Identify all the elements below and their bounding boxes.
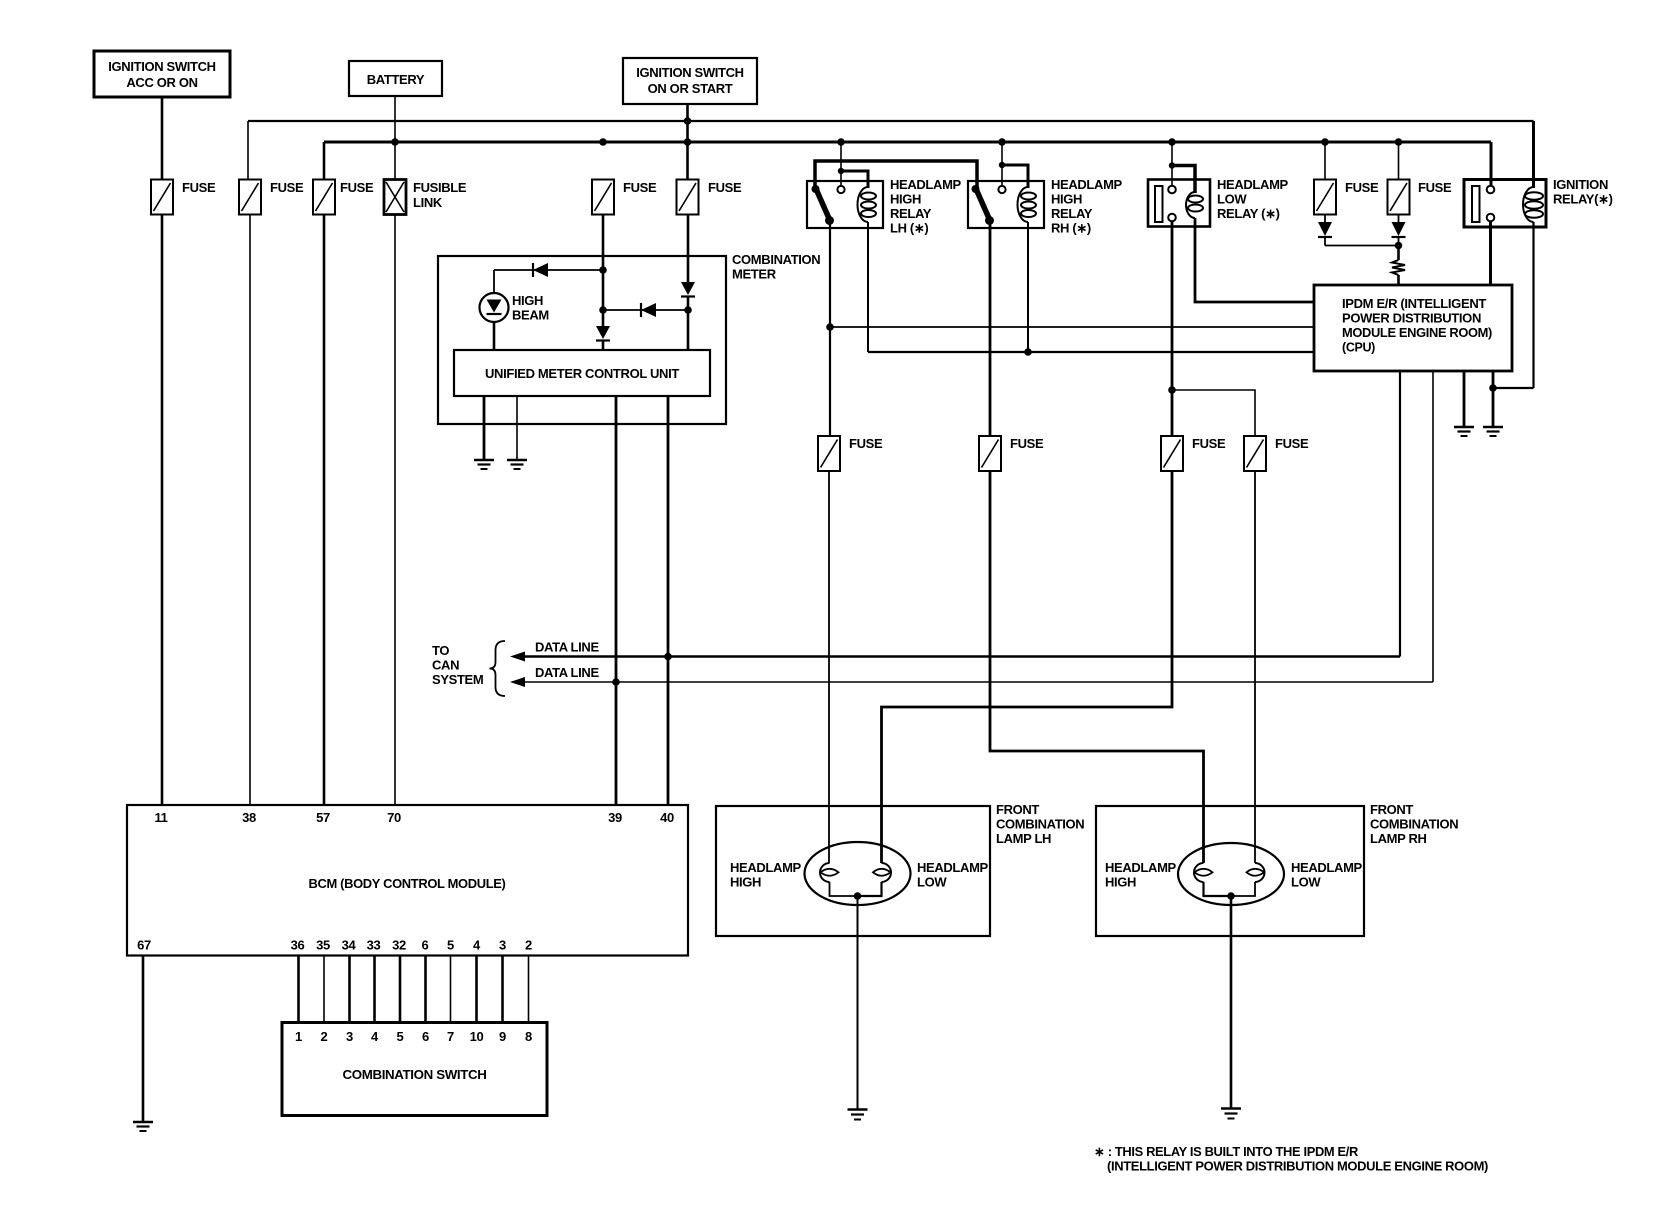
svg-text:BCM (BODY CONTROL MODULE): BCM (BODY CONTROL MODULE) — [309, 876, 506, 891]
box: IPDM E/R — [1314, 285, 1512, 371]
node: bus2 relay LH junction — [837, 138, 845, 146]
svg-text:4: 4 — [371, 1029, 379, 1044]
brace: CAN system — [490, 641, 506, 696]
wire: ignition switch on/start drop — [686, 104, 689, 180]
svg-text:POWER DISTRIBUTION: POWER DISTRIBUTION — [1342, 311, 1481, 326]
svg-text:SYSTEM: SYSTEM — [432, 672, 483, 687]
svg-text:LOW: LOW — [1217, 192, 1247, 207]
svg-text:RH (∗): RH (∗) — [1051, 221, 1091, 236]
svg-text:6: 6 — [422, 938, 429, 953]
filament: RH high — [1105, 860, 1231, 896]
svg-text:HEADLAMP: HEADLAMP — [1105, 860, 1177, 875]
wire: BCM 36 to switch 1 — [297, 956, 300, 1023]
box: combination switch — [282, 1023, 547, 1116]
contact: ignition relay top contact — [1487, 186, 1495, 194]
svg-text:4: 4 — [473, 938, 481, 953]
fuse F2 — [239, 180, 304, 215]
wire: UMCU pin 40 down to BCM — [667, 396, 670, 805]
svg-text:3: 3 — [346, 1029, 353, 1044]
node: RH bulb common — [1227, 892, 1235, 900]
svg-text:LINK: LINK — [413, 195, 443, 210]
diode D5 under fuse F7 — [1318, 215, 1332, 246]
ground: IPDM 1 — [1454, 427, 1474, 436]
svg-text:33: 33 — [367, 938, 381, 953]
svg-text:HEADLAMP: HEADLAMP — [730, 860, 802, 875]
wire: LH coil feed — [841, 171, 868, 188]
svg-text:LAMP LH: LAMP LH — [996, 831, 1051, 846]
node: LH output IPDM branch — [826, 323, 834, 331]
svg-text:38: 38 — [242, 810, 256, 825]
svg-text:CAN: CAN — [432, 658, 459, 673]
svg-text:TO: TO — [432, 643, 449, 658]
svg-text:7: 7 — [447, 1029, 454, 1044]
svg-text:32: 32 — [392, 938, 406, 953]
coil K4 — [1523, 187, 1534, 222]
fuse F5 — [592, 180, 657, 215]
wire: BCM 5 to switch 7 — [450, 956, 452, 1023]
svg-text:FUSE: FUSE — [708, 180, 742, 195]
diode D6 under fuse F8 — [1392, 215, 1406, 246]
node: bus2 fuse F5 junction — [599, 138, 607, 146]
svg-text:HEADLAMP: HEADLAMP — [1051, 177, 1123, 192]
fuse F10 (RH high) — [979, 436, 1044, 471]
wire: bus2 to low relay — [1171, 142, 1173, 185]
coil K2 — [1018, 187, 1029, 222]
node: coil return join — [1489, 384, 1497, 392]
wire: fuse F11 to LH lamp low — [882, 471, 1173, 863]
wire: BCM 32 to switch 5 — [399, 956, 402, 1023]
contact: low relay top contact — [1168, 186, 1176, 194]
wire: BCM 35 to switch 2 — [323, 956, 325, 1023]
svg-text:ON OR START: ON OR START — [648, 81, 733, 96]
switch bar K3 — [1155, 186, 1163, 222]
footnote — [1094, 1144, 1488, 1174]
svg-text:HIGH: HIGH — [1051, 192, 1082, 207]
wire: low relay output down — [1171, 222, 1174, 437]
switch arm K2 — [977, 190, 990, 220]
wire: BCM 3 to switch 9 — [501, 956, 504, 1023]
svg-text:67: 67 — [137, 938, 151, 953]
box: BATTERY — [349, 61, 442, 96]
svg-text:34: 34 — [342, 938, 357, 953]
wire: bus2 horizontal (battery feed) — [324, 141, 1491, 144]
svg-text:METER: METER — [732, 267, 777, 282]
relay K4: ignition relay — [1464, 121, 1613, 227]
wire: BCM 34 to switch 3 — [348, 956, 351, 1023]
svg-text:3: 3 — [499, 938, 506, 953]
wire: fuse F12 to RH lamp low — [1254, 471, 1256, 863]
switch arm K1 — [817, 190, 830, 220]
svg-text:IGNITION SWITCH: IGNITION SWITCH — [108, 59, 215, 74]
wire: fuse F6 into meter — [687, 215, 690, 283]
svg-text:IGNITION: IGNITION — [1553, 177, 1608, 192]
svg-text:6: 6 — [422, 1029, 429, 1044]
wire: fusible link to BCM pin 70 — [394, 215, 396, 806]
wire: BCM 2 to switch 8 — [528, 956, 530, 1023]
svg-text:11: 11 — [154, 810, 167, 825]
fuse F12 (RH low) — [1244, 436, 1309, 471]
svg-text:DATA LINE: DATA LINE — [535, 665, 599, 680]
svg-text:RELAY: RELAY — [1051, 206, 1093, 221]
svg-text:FUSIBLE: FUSIBLE — [413, 180, 467, 195]
node: RH coil join — [1024, 348, 1032, 356]
wire: BCM 6 to switch 6 — [424, 956, 427, 1023]
wire: node to resistor — [1397, 246, 1400, 261]
box: IGNITION SWITCH ON OR START — [623, 58, 757, 104]
node: diode outputs join — [1395, 242, 1403, 250]
wire: LH output branch to IPDM — [830, 326, 1314, 328]
wire: bus1 horizontal (ignition on/start feed) — [248, 120, 1534, 122]
wire: fuse F9 to LH lamp high — [828, 471, 830, 863]
wire: bus2 to ignition relay contact — [1490, 142, 1493, 185]
contact: low relay bottom contact — [1168, 214, 1176, 222]
svg-text:40: 40 — [660, 810, 674, 825]
relay K2: headlamp high relay RH — [968, 142, 1123, 236]
box: BCM (body control module) — [127, 805, 688, 956]
svg-text:COMBINATION SWITCH: COMBINATION SWITCH — [343, 1067, 487, 1082]
node: bus1 ignition junction — [684, 117, 692, 125]
ground: LH lamp — [848, 1110, 868, 1120]
relay K3: headlamp low relay — [1148, 142, 1289, 227]
svg-text:10: 10 — [470, 1029, 484, 1044]
svg-text:HEADLAMP: HEADLAMP — [1291, 860, 1363, 875]
node: bus2 ignition wire junction — [684, 138, 692, 146]
wire: diode D1 to high beam lamp — [493, 270, 495, 293]
svg-text:1: 1 — [295, 1029, 302, 1044]
wire: bus2 left drop to fuse F3 — [323, 142, 326, 180]
wire: IPDM ground 2 — [1492, 371, 1495, 427]
wire: branch to fuse F12 — [1172, 390, 1255, 436]
bulb: LH headlamp — [805, 842, 911, 905]
svg-text:MODULE ENGINE ROOM): MODULE ENGINE ROOM) — [1342, 325, 1492, 340]
diode D3 (points left) — [641, 303, 656, 317]
svg-text:COMBINATION: COMBINATION — [996, 817, 1084, 832]
wire: RH bulb to ground — [1230, 896, 1233, 1109]
svg-text:RELAY: RELAY — [890, 206, 932, 221]
wire: ignition relay coil down — [1532, 222, 1534, 388]
bulb: RH headlamp — [1178, 843, 1284, 905]
svg-text:(CPU): (CPU) — [1342, 340, 1375, 355]
svg-text:FUSE: FUSE — [849, 436, 883, 451]
wire: coil return line to IPDM — [868, 351, 1314, 353]
wire: fuse F2 to BCM pin 38 — [249, 215, 251, 806]
node: bus2 fuse F7 junction — [1321, 138, 1329, 146]
wire: D4 to UMCU — [687, 297, 690, 351]
node: bus2 low relay junction — [1168, 138, 1176, 146]
svg-text:36: 36 — [291, 938, 305, 953]
svg-text:UNIFIED METER CONTROL UNIT: UNIFIED METER CONTROL UNIT — [485, 366, 679, 381]
svg-text:9: 9 — [499, 1029, 506, 1044]
filament: LH low — [858, 860, 989, 896]
svg-text:IGNITION SWITCH: IGNITION SWITCH — [636, 65, 743, 80]
node: LH coil branch — [838, 168, 844, 174]
wire: low relay coil feed — [1172, 166, 1195, 194]
arrow+wire: data line 1 — [510, 652, 1400, 662]
resistor R1 — [1392, 260, 1405, 275]
svg-text:HEADLAMP: HEADLAMP — [1217, 177, 1289, 192]
fuse F7 — [1314, 142, 1379, 215]
svg-text:70: 70 — [387, 810, 401, 825]
coil K3 — [1186, 192, 1195, 218]
wire: high beam lamp to UMCU — [493, 322, 496, 350]
wire: battery to fusible link — [394, 96, 396, 180]
wire: low relay coil to IPDM — [1195, 218, 1314, 302]
label: TO CAN SYSTEM — [432, 643, 483, 687]
svg-text:BATTERY: BATTERY — [367, 72, 425, 87]
svg-text:FUSE: FUSE — [623, 180, 657, 195]
wire: LH bulb to ground — [857, 896, 859, 1110]
diode D1 (points left) — [533, 263, 548, 277]
wire: bus2 to LH relay — [840, 142, 842, 185]
arrow+wire: data line 2 — [510, 677, 1433, 687]
node: low output branch — [1168, 386, 1176, 394]
wire: UMCU ground 2 — [516, 396, 518, 460]
wire: IPDM ground 1 — [1463, 371, 1466, 427]
svg-text:HIGH: HIGH — [1105, 875, 1136, 890]
svg-text:35: 35 — [316, 938, 330, 953]
wire: fuse F10 to RH lamp high — [990, 471, 1204, 863]
svg-text:2: 2 — [321, 1029, 328, 1044]
fuse F1 — [151, 180, 216, 215]
svg-text:HIGH: HIGH — [730, 875, 761, 890]
ground: UMCU 2 — [507, 460, 527, 469]
wire: BCM 4 to switch 10 — [475, 956, 478, 1023]
diode D4 (points down, right wire) — [681, 282, 695, 297]
node: LH bulb common — [854, 892, 862, 900]
wire: bus1 to ignition relay coil — [1532, 121, 1535, 188]
node: bus2 relay RH junction — [998, 138, 1006, 146]
svg-text:HEADLAMP: HEADLAMP — [917, 860, 989, 875]
svg-text:FUSE: FUSE — [270, 180, 304, 195]
svg-text:RELAY (∗): RELAY (∗) — [1217, 206, 1280, 221]
node: bus2 fuse F8 junction — [1395, 138, 1403, 146]
LED: high beam indicator — [480, 293, 549, 323]
fuse F3 — [313, 180, 374, 215]
filament: LH high — [730, 860, 858, 896]
wire: switch feed jumper LH-RH — [815, 161, 977, 190]
svg-text:2: 2 — [525, 938, 532, 953]
wire: RH coil feed — [1002, 165, 1028, 188]
svg-text:HIGH: HIGH — [890, 192, 921, 207]
svg-text:FUSE: FUSE — [1418, 180, 1452, 195]
fuse F9 (LH high) — [818, 436, 883, 471]
svg-text:FUSE: FUSE — [1345, 180, 1379, 195]
wire: RH relay switch output down to fuse — [989, 221, 992, 437]
switch bar K4 — [1472, 186, 1480, 222]
fuse F6 — [677, 180, 742, 215]
node: low relay coil branch — [1169, 162, 1175, 168]
node: data line 2 to BCM pin 39 — [612, 678, 620, 686]
wire: LH relay switch output down to fuse — [829, 221, 831, 437]
ground: RH lamp — [1221, 1109, 1241, 1119]
wire: mid branch to diode D3 — [603, 309, 688, 311]
contact: ignition relay bottom contact — [1487, 214, 1495, 222]
node: data line 1 to BCM pin 40 — [664, 653, 672, 661]
svg-text:57: 57 — [316, 810, 330, 825]
ground: BCM — [133, 1122, 153, 1131]
svg-text:FRONT: FRONT — [996, 802, 1039, 817]
svg-text:FRONT: FRONT — [1370, 802, 1413, 817]
svg-text:5: 5 — [447, 938, 454, 953]
wire: IPDM data pin 2 down — [1432, 371, 1434, 682]
wire: fuse F1 to BCM pin 11 — [161, 215, 164, 806]
node: meter mid branch — [599, 306, 607, 314]
svg-text:BEAM: BEAM — [512, 308, 549, 323]
wire: BCM pin 67 to ground — [142, 956, 145, 1123]
contact: LH relay fixed contact — [837, 186, 844, 193]
svg-text:HEADLAMP: HEADLAMP — [890, 177, 962, 192]
svg-text:LOW: LOW — [917, 875, 947, 890]
filament: RH low — [1231, 860, 1363, 896]
wire: coil return to IPDM ground node — [1493, 387, 1534, 389]
wire: BCM 33 to switch 4 — [373, 956, 376, 1023]
node: bus2 battery junction — [391, 138, 399, 146]
coil K1 — [858, 187, 868, 222]
wire: fuse F3 to BCM pin 57 — [323, 215, 326, 806]
svg-text:∗ : THIS RELAY IS BUILT INTO T: ∗ : THIS RELAY IS BUILT INTO THE IPDM E/… — [1094, 1144, 1359, 1159]
svg-text:RELAY(∗): RELAY(∗) — [1553, 192, 1613, 207]
wire: ignition relay contact to IPDM top — [1489, 222, 1492, 286]
box: front combination lamp RH — [1096, 802, 1458, 936]
wire: ignition switch ACC to fuse F1 — [161, 97, 164, 180]
svg-text:DATA LINE: DATA LINE — [535, 640, 599, 655]
svg-text:FUSE: FUSE — [340, 180, 374, 195]
wire: bus2 to RH relay — [1001, 142, 1003, 185]
svg-text:FUSE: FUSE — [182, 180, 216, 195]
wire: UMCU pin 39 down to BCM — [615, 396, 618, 805]
svg-text:LOW: LOW — [1291, 875, 1321, 890]
svg-text:FUSE: FUSE — [1275, 436, 1309, 451]
wire: IPDM data pin 1 down — [1399, 371, 1401, 657]
svg-text:LAMP RH: LAMP RH — [1370, 831, 1427, 846]
svg-text:5: 5 — [397, 1029, 404, 1044]
node: meter right branch — [684, 306, 692, 314]
wire: fuse F5 into meter — [602, 215, 605, 327]
fuse F8 — [1388, 142, 1452, 215]
ground: UMCU 1 — [474, 460, 494, 469]
box: combination meter — [438, 252, 820, 424]
svg-text:(INTELLIGENT POWER DISTRIBUTIO: (INTELLIGENT POWER DISTRIBUTION MODULE E… — [1107, 1159, 1488, 1174]
relay K1: headlamp high relay LH — [807, 142, 977, 236]
fuse F11 (LH low) — [1161, 436, 1226, 471]
wire: LH coil down — [867, 222, 869, 352]
wire: UMCU ground 1 — [483, 396, 486, 460]
svg-text:FUSE: FUSE — [1010, 436, 1044, 451]
ground: IPDM 2 — [1483, 427, 1503, 436]
node: meter top branch — [599, 266, 607, 274]
svg-text:HIGH: HIGH — [512, 293, 543, 308]
node: RH coil branch — [999, 162, 1005, 168]
box: unified meter control unit — [454, 350, 710, 396]
wire: diode D5 output to node — [1325, 245, 1399, 247]
box: IGNITION SWITCH ACC OR ON — [94, 51, 230, 97]
svg-text:ACC OR ON: ACC OR ON — [126, 75, 197, 90]
svg-text:IPDM E/R (INTELLIGENT: IPDM E/R (INTELLIGENT — [1342, 296, 1486, 311]
fusible link FL — [384, 180, 467, 215]
diode D2 (points down, under node) — [596, 326, 610, 350]
svg-text:FUSE: FUSE — [1192, 436, 1226, 451]
box: front combination lamp LH — [716, 802, 1084, 936]
svg-text:COMBINATION: COMBINATION — [1370, 817, 1458, 832]
svg-text:COMBINATION: COMBINATION — [732, 252, 820, 267]
wire: bus1 left drop to fuse F2 — [247, 121, 249, 180]
wire: resistor to IPDM — [1397, 275, 1400, 285]
svg-text:LH (∗): LH (∗) — [890, 221, 928, 236]
wire: branch to diode D1 — [494, 269, 603, 271]
svg-text:39: 39 — [608, 810, 622, 825]
svg-text:8: 8 — [525, 1029, 532, 1044]
wire: RH coil down — [1027, 222, 1029, 352]
contact: RH relay fixed contact — [998, 186, 1005, 193]
